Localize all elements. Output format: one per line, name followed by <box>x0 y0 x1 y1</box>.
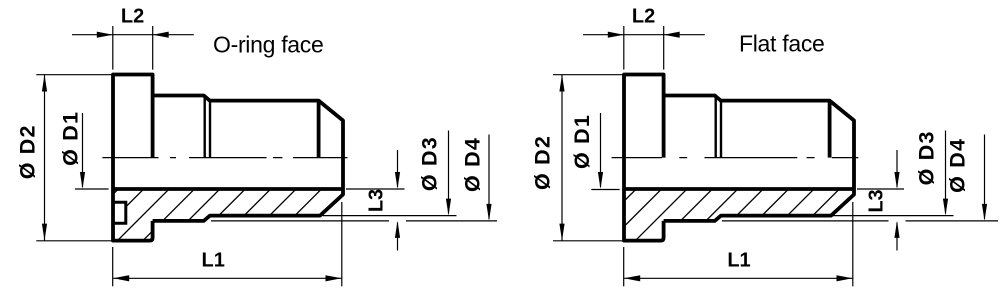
left view (O-ring face): body profile (boss, thread, chamfer, end face) <box>153 96 343 221</box>
svg-text:Ø D1: Ø D1 <box>570 114 594 169</box>
dimension L1: arrowheads <box>113 275 341 281</box>
dimension D4 (right): reference line <box>722 220 998 222</box>
svg-text:O-ring face: O-ring face <box>213 32 323 58</box>
dimension D4: arrowhead <box>486 204 491 221</box>
right view (flat face): thread runout edge lines <box>715 96 717 157</box>
svg-text:Ø D4: Ø D4 <box>461 137 485 192</box>
dimension D3: arrowhead <box>446 199 451 216</box>
svg-text:Flat face: Flat face <box>739 31 825 57</box>
dimension L1 (right): arrowheads <box>624 275 852 281</box>
left view (O-ring face): thread runout edge lines <box>203 96 205 157</box>
dimension D3: reference line <box>323 215 457 217</box>
svg-text:Ø D1: Ø D1 <box>59 111 83 166</box>
dimension L1 (right): extension lines <box>624 202 853 286</box>
dimension L2: dimension line <box>72 34 194 36</box>
dimension D4 (right): arrowhead <box>982 204 987 221</box>
right view (flat face): chamfer edge <box>828 101 832 158</box>
dimension L2: arrowheads <box>97 32 169 38</box>
svg-text:L1: L1 <box>727 250 750 272</box>
dimension L3: arrowheads <box>395 172 400 238</box>
dimension D3 (right): arrowhead <box>943 199 948 216</box>
dimension L2 (right): dimension line <box>583 34 705 36</box>
svg-text:Ø D4: Ø D4 <box>946 138 970 193</box>
dimension L2: extension lines <box>113 26 153 70</box>
svg-text:L1: L1 <box>202 250 225 272</box>
dimension D1 (right): dimension line <box>600 113 602 187</box>
dimension D2 (right): arrowheads <box>559 75 564 241</box>
dimension D2: extension lines <box>36 75 112 241</box>
svg-text:Ø D3: Ø D3 <box>418 136 442 191</box>
dimension L3: reference line (bore extension) <box>346 188 405 190</box>
dimension D2 (right): extension lines <box>553 75 623 241</box>
dimension D4: reference line <box>211 220 497 222</box>
dimension D2: dimension line <box>44 75 46 241</box>
dimension L2 (right): extension lines <box>624 26 664 70</box>
svg-text:L3: L3 <box>366 189 388 212</box>
svg-text:L2: L2 <box>121 6 144 28</box>
left view (O-ring face): flange outline <box>113 75 153 241</box>
svg-text:L2: L2 <box>632 6 655 28</box>
left view (O-ring face): O-ring groove <box>113 202 126 223</box>
left view (O-ring face): centerline <box>102 157 347 159</box>
svg-text:Ø D2: Ø D2 <box>16 124 40 179</box>
dimension D1: dimension line <box>82 113 84 187</box>
right view (flat face): bore line <box>624 187 854 191</box>
dimension L3 (right): reference line (bore extension) <box>857 188 904 190</box>
svg-text:Ø D3: Ø D3 <box>915 130 939 185</box>
dimension L2 (right): arrowheads <box>608 32 680 38</box>
dimension D1: reference line <box>75 188 109 190</box>
dimension L3 (right): arrowheads <box>894 172 899 238</box>
dimension D3 (right): reference line <box>833 215 954 217</box>
svg-text:L3: L3 <box>866 189 888 212</box>
dimension D4: dimension line <box>488 135 490 219</box>
right view (flat face): centerline <box>612 157 859 159</box>
dimension D1: arrowhead <box>80 172 85 189</box>
dimension D2 (right): dimension line <box>561 75 563 241</box>
left view (O-ring face): chamfer edge <box>317 101 321 158</box>
dimension L3: dimension lines <box>397 150 399 251</box>
dimension D3 (right): dimension line <box>945 131 947 214</box>
dimension D4 (right): dimension line <box>984 135 986 219</box>
dimension L1: dimension line <box>113 277 341 279</box>
dimension L1: extension lines <box>113 202 342 286</box>
dimension L1 (right): dimension line <box>624 277 852 279</box>
dimension D1 (right): reference line <box>591 189 619 191</box>
dimension D3: dimension line <box>448 131 450 214</box>
dimension D1 (right): arrowhead <box>598 172 603 189</box>
svg-text:Ø D2: Ø D2 <box>531 135 555 190</box>
left view (O-ring face): bore line <box>113 187 343 191</box>
right view (flat face): body profile (boss, thread, chamfer, end face) <box>664 96 854 221</box>
dimension D2: arrowheads <box>42 75 47 241</box>
right view (flat face): flange outline <box>624 75 664 241</box>
dimension L3 (right): dimension lines <box>896 150 898 251</box>
